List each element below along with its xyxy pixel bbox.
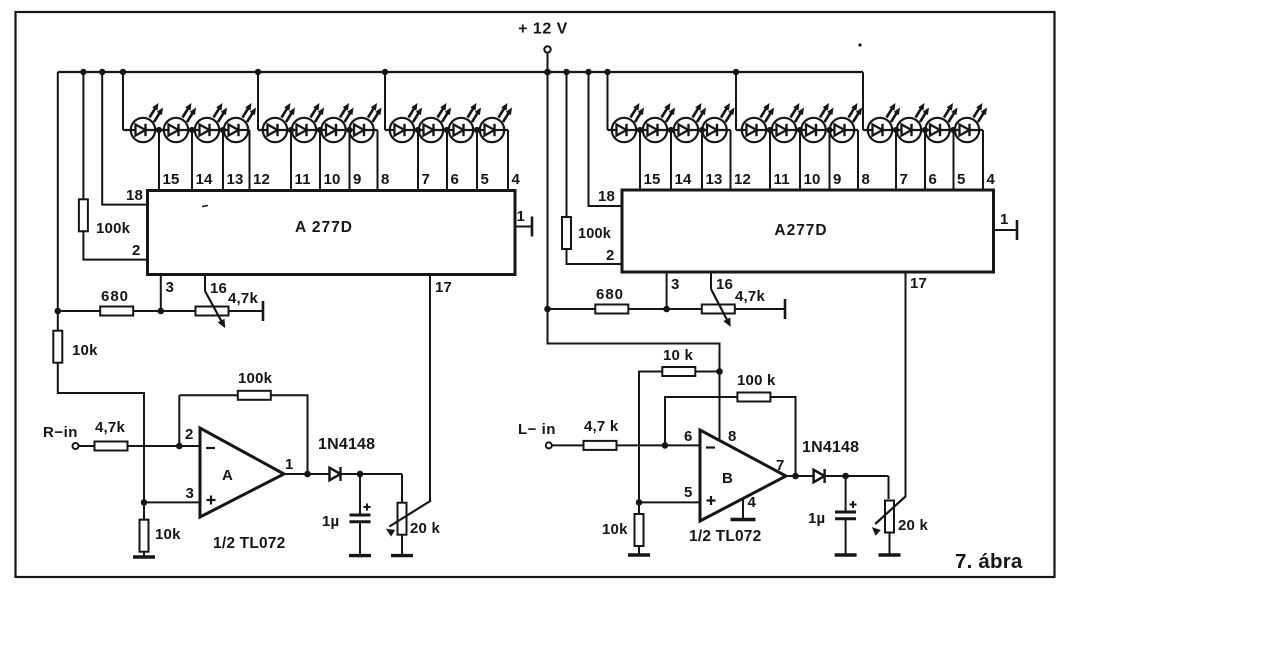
capacitor 1u left — [350, 514, 371, 517]
svg-text:3: 3 — [166, 279, 175, 296]
wire 680 row left — [58, 310, 101, 312]
svg-text:9: 9 — [353, 171, 362, 188]
wire to IC pin 10 — [799, 130, 801, 190]
wire down to cap right — [845, 476, 847, 512]
wire bus to IC pin 18 — [102, 72, 147, 205]
wire feedback top left — [179, 394, 238, 396]
svg-text:1N4148: 1N4148 — [802, 439, 859, 456]
svg-text:4: 4 — [512, 171, 521, 188]
svg-text:16: 16 — [716, 276, 733, 293]
LED (drives pin 8) — [349, 118, 373, 142]
wire to IC pin 4 — [982, 130, 984, 190]
wire LED row — [258, 129, 378, 131]
svg-text:3: 3 — [671, 276, 680, 293]
wire R-in to 4.7k — [79, 445, 96, 447]
pin 1 terminator left — [531, 217, 534, 237]
ground 10k left — [133, 555, 155, 558]
svg-text:10 k: 10 k — [663, 347, 693, 364]
svg-text:15: 15 — [644, 171, 661, 188]
wire diode to cap junction right — [825, 475, 889, 477]
svg-text:A 277D: A 277D — [295, 219, 353, 236]
wire 20k to ground right — [889, 533, 891, 556]
svg-text:18: 18 — [598, 188, 615, 205]
terminator 4.7k row right — [784, 299, 787, 319]
resistor 10k bias right — [635, 514, 644, 546]
wire +12V rail down right — [547, 72, 549, 309]
junction LED cathode pin 7 — [893, 127, 899, 133]
svg-text:A: A — [222, 467, 233, 484]
wire feedback to output right — [770, 397, 796, 476]
junction LED cathode pin 10 — [797, 127, 803, 133]
junction LED cathode pin 5 — [950, 127, 956, 133]
wire to IC pin 15 — [639, 130, 641, 190]
svg-text:4,7k: 4,7k — [95, 419, 125, 436]
svg-text:16: 16 — [210, 280, 227, 297]
LED (drives pin 5) — [449, 118, 473, 142]
LED (drives pin 15) — [131, 118, 155, 142]
svg-text:100 k: 100 k — [737, 372, 776, 389]
svg-text:11: 11 — [774, 171, 790, 188]
terminator 4.7k row left — [262, 301, 265, 321]
LED (drives pin 7) — [390, 118, 414, 142]
svg-text:6: 6 — [451, 171, 460, 188]
resistor 4.7k input left — [95, 442, 128, 451]
wire +12V down to bus — [547, 53, 549, 72]
wire to IC pin 5 — [953, 130, 955, 190]
svg-text:12: 12 — [734, 171, 751, 188]
junction pin 3 right — [663, 306, 670, 313]
wire to IC pin 7 — [895, 130, 897, 190]
svg-text:A277D: A277D — [774, 222, 827, 239]
wire 100k to IC pin 2 right — [567, 249, 623, 264]
wire down to 20k left — [401, 474, 403, 503]
wire bus to LED anode — [122, 72, 124, 130]
diode 1N4148 left — [330, 468, 341, 480]
svg-text:1: 1 — [517, 208, 526, 225]
svg-text:+ 12 V: + 12 V — [518, 21, 568, 38]
LED (drives pin 4) — [480, 118, 504, 142]
wire LED row — [123, 129, 250, 131]
svg-text:13: 13 — [227, 171, 244, 188]
wire op-amp A output — [284, 473, 330, 475]
svg-text:6: 6 — [684, 428, 693, 445]
resistor 10k left rail — [53, 331, 62, 363]
wire cap to ground right — [845, 519, 847, 555]
wire 100k to IC pin 2 — [83, 230, 147, 259]
wire to IC pin 13 — [222, 130, 224, 191]
junction LED cathode pin 10 — [317, 127, 323, 133]
svg-text:6: 6 — [929, 171, 938, 188]
IC A277D left channel — [148, 191, 516, 275]
pin 1 terminator right — [1016, 220, 1019, 240]
LED (drives pin 13) — [195, 118, 219, 142]
wire op-amp B pin 4 ground stub — [742, 499, 744, 520]
junction noninverting left — [141, 499, 148, 506]
wire to IC pin 9 — [829, 130, 831, 190]
wire LED row — [608, 129, 731, 131]
svg-text:1µ: 1µ — [808, 510, 825, 527]
svg-text:10k: 10k — [72, 342, 98, 359]
wire IC pin 16 down — [204, 275, 206, 292]
junction bus right g2 — [733, 69, 739, 75]
wire to IC pin 11 — [290, 130, 292, 191]
LED (drives pin 9) — [801, 118, 825, 142]
svg-text:11: 11 — [295, 171, 311, 188]
wire feedback to output — [270, 395, 308, 474]
svg-text:2: 2 — [606, 247, 615, 264]
wire 680 row right — [548, 308, 596, 310]
svg-text:1N4148: 1N4148 — [318, 436, 375, 453]
op-amp B triangle — [700, 430, 786, 521]
wire LED row — [863, 129, 983, 131]
svg-text:14: 14 — [675, 171, 693, 188]
svg-text:100k: 100k — [578, 226, 612, 242]
LED (drives pin 11) — [742, 118, 766, 142]
junction LED cathode pin 15 — [156, 127, 162, 133]
resistor 10k bias left — [140, 520, 149, 552]
svg-text:680: 680 — [596, 286, 624, 303]
svg-text:5: 5 — [957, 171, 966, 188]
junction diode/cap right — [842, 473, 849, 480]
svg-text:100k: 100k — [238, 370, 273, 387]
svg-text:7: 7 — [776, 457, 785, 474]
wire 4.7k to inverting input right — [616, 444, 700, 446]
wire bus down left rail — [57, 72, 59, 311]
wire pin 17 right — [905, 272, 907, 496]
wire bus to LED anode — [735, 72, 737, 130]
svg-text:R−in: R−in — [43, 424, 78, 441]
svg-text:10k: 10k — [602, 521, 628, 538]
plus sign op-amp B — [707, 499, 716, 501]
wire trimmer to terminator — [229, 310, 264, 312]
svg-text:13: 13 — [706, 171, 723, 188]
junction LED cathode pin 14 — [668, 127, 674, 133]
resistor 100k right channel — [562, 217, 571, 249]
svg-text:4,7k: 4,7k — [735, 288, 765, 305]
LED (drives pin 6) — [419, 118, 443, 142]
svg-text:7: 7 — [422, 171, 431, 188]
LED (drives pin 11) — [263, 118, 287, 142]
wire 10k row left leg — [639, 372, 662, 503]
wire to IC pin 8 — [857, 130, 859, 190]
wire 680 to pin3 junction — [133, 310, 196, 312]
svg-text:1µ: 1µ — [322, 513, 339, 530]
ground 10k bias right — [628, 553, 650, 556]
wire trimmer to terminator right — [735, 308, 785, 310]
diode 1N4148 right — [814, 470, 825, 482]
wire bus down to 100k right — [566, 72, 568, 217]
svg-text:18: 18 — [126, 187, 143, 204]
wire bus to LED anode — [607, 72, 609, 130]
svg-text:10k: 10k — [155, 526, 181, 543]
wire to IC pin 14 — [191, 130, 193, 191]
junction LED cathode pin 5 — [474, 127, 480, 133]
svg-text:17: 17 — [910, 275, 927, 292]
wire feedback 100k left leg right ch — [665, 397, 738, 445]
junction bus to 100k right — [563, 69, 569, 75]
wire bus to IC pin 18 right — [589, 72, 623, 206]
svg-text:7. ábra: 7. ábra — [955, 550, 1023, 573]
minus sign op-amp B — [706, 446, 715, 448]
svg-text:9: 9 — [833, 171, 842, 188]
wire rail to 10k — [57, 311, 59, 331]
wire to IC pin 4 — [507, 130, 509, 191]
svg-text:14: 14 — [196, 171, 214, 188]
junction noninverting right — [636, 499, 643, 506]
capacitor 1u right — [835, 511, 856, 514]
wire 4.7k to inverting input — [127, 445, 200, 447]
junction LED cathode pin 9 — [346, 127, 352, 133]
wire LED row — [736, 129, 858, 131]
svg-text:20 k: 20 k — [898, 517, 928, 534]
wire to IC pin 10 — [319, 130, 321, 191]
junction LED cathode pin 13 — [220, 127, 226, 133]
svg-text:15: 15 — [163, 171, 180, 188]
svg-text:17: 17 — [435, 279, 452, 296]
junction 10k feedback right — [716, 368, 723, 375]
wire 10k to ground — [143, 552, 145, 557]
op-amp A triangle — [200, 428, 284, 517]
input terminal R-in — [73, 443, 79, 449]
junction bus left g1 — [120, 69, 126, 75]
LED (drives pin 14) — [164, 118, 188, 142]
wire to IC pin 6 — [924, 130, 926, 190]
svg-text:680: 680 — [101, 288, 129, 305]
wire junction to 10k bias left — [143, 502, 145, 520]
LED (drives pin 12) — [224, 118, 248, 142]
junction LED cathode pin 13 — [699, 127, 705, 133]
ground 20k left — [391, 554, 413, 557]
svg-text:1/2 TL072: 1/2 TL072 — [689, 528, 761, 545]
svg-text:4: 4 — [748, 494, 757, 511]
wire noninverting input right — [639, 501, 700, 503]
wire IC pin 16 down right — [710, 272, 712, 289]
wire to IC pin 9 — [349, 130, 351, 191]
+12V terminal — [544, 46, 550, 52]
junction bus to 100k left — [80, 69, 86, 75]
wire pin 17 left — [429, 275, 431, 502]
resistor 680 right — [595, 305, 628, 314]
svg-text:L− in: L− in — [518, 421, 556, 438]
wire IC pin 3 down — [160, 275, 162, 312]
svg-text:8: 8 — [862, 171, 871, 188]
junction LED cathode pin 6 — [444, 127, 450, 133]
svg-text:10: 10 — [324, 171, 341, 188]
svg-text:5: 5 — [684, 484, 693, 501]
wire noninverting input left — [144, 501, 200, 503]
junction bus left g2 — [255, 69, 261, 75]
svg-text:12: 12 — [253, 171, 270, 188]
ground 20k right — [879, 553, 901, 556]
wire feedback left vertical — [178, 395, 180, 446]
LED (drives pin 7) — [868, 118, 892, 142]
wire junction to 10k bias right — [638, 502, 640, 514]
junction left rail / 680 row — [55, 308, 62, 315]
junction +12V/bus — [544, 69, 551, 76]
resistor 100k feedback left — [238, 391, 271, 400]
junction right rail / 680 row — [544, 306, 551, 313]
svg-text:1: 1 — [285, 456, 294, 473]
svg-text:2: 2 — [185, 426, 194, 443]
wire 10k row right — [695, 371, 719, 373]
resistor 100k left channel — [79, 199, 88, 231]
wire to IC pin 7 — [417, 130, 419, 191]
wire 10k to noninverting input — [58, 363, 144, 503]
trimmer 4.7k right — [702, 305, 735, 314]
trimmer 20k left — [398, 503, 407, 535]
LED (drives pin 15) — [612, 118, 636, 142]
wire to IC pin 6 — [446, 130, 448, 191]
svg-text:4: 4 — [987, 171, 996, 188]
wire to IC pin 13 — [701, 130, 703, 190]
wire rail to op-amp supply — [548, 309, 720, 444]
svg-text:1: 1 — [1000, 211, 1009, 228]
plus sign op-amp A — [207, 499, 216, 501]
wire LED row — [385, 129, 508, 131]
svg-text:100k: 100k — [96, 220, 131, 237]
junction LED cathode pin 6 — [922, 127, 928, 133]
svg-text:B: B — [722, 470, 733, 487]
print speck inside IC — [202, 206, 208, 207]
junction LED cathode pin 7 — [415, 127, 421, 133]
+12V bus wire — [58, 71, 863, 73]
ground op-amp B — [731, 518, 756, 521]
wire 20k to ground — [401, 535, 403, 556]
LED (drives pin 12) — [702, 118, 726, 142]
junction inverting input right — [662, 442, 669, 449]
wire bus to LED anode — [257, 72, 259, 130]
junction output/feedback right — [792, 473, 799, 480]
LED (drives pin 6) — [897, 118, 921, 142]
junction output/feedback left — [304, 471, 311, 478]
resistor 680 left — [100, 307, 133, 316]
input terminal L-in — [546, 442, 552, 448]
svg-text:4,7 k: 4,7 k — [584, 418, 619, 435]
svg-text:7: 7 — [900, 171, 909, 188]
junction LED cathode pin 11 — [767, 127, 773, 133]
junction LED cathode pin 11 — [288, 127, 294, 133]
trimmer 4.7k left — [196, 307, 229, 316]
junction LED cathode pin 15 — [637, 127, 643, 133]
wire bus to LED anode — [384, 72, 386, 130]
pin 1 wire right IC — [994, 229, 1018, 231]
svg-text:5: 5 — [481, 171, 490, 188]
wire bus to LED anode — [862, 72, 864, 130]
IC A277D right channel — [622, 190, 994, 272]
svg-text:8: 8 — [381, 171, 390, 188]
junction inverting input left — [176, 443, 183, 450]
LED (drives pin 8) — [830, 118, 854, 142]
junction LED cathode pin 14 — [189, 127, 195, 133]
svg-text:20 k: 20 k — [410, 520, 440, 537]
wire to IC pin 11 — [769, 130, 771, 190]
resistor 4.7k input right — [584, 441, 617, 450]
wire op-amp B output — [786, 475, 814, 477]
paper speck — [858, 43, 861, 46]
trimmer 20k right — [885, 501, 894, 533]
wire 680 to pin3 right — [629, 308, 705, 310]
wire to IC pin 15 — [158, 130, 160, 191]
pin 1 wire left IC — [515, 226, 532, 228]
junction pin 3 left — [158, 308, 165, 315]
wire to IC pin 12 — [249, 130, 251, 191]
wire down to cap left — [359, 474, 361, 515]
LED (drives pin 10) — [772, 118, 796, 142]
wire to IC pin 14 — [670, 130, 672, 190]
LED (drives pin 5) — [925, 118, 949, 142]
wire cap to ground — [359, 522, 361, 556]
junction diode/cap left — [357, 471, 364, 478]
resistor 10k feedback right — [662, 367, 695, 376]
junction bus pin18 right — [585, 69, 591, 75]
schematic frame — [16, 12, 1055, 577]
junction bus pin18 left — [99, 69, 105, 75]
junction bus left g3 — [382, 69, 388, 75]
wire 10k bias to ground right — [638, 546, 640, 555]
junction LED cathode pin 9 — [826, 127, 832, 133]
LED (drives pin 13) — [674, 118, 698, 142]
junction bus right g1 — [604, 69, 610, 75]
wire diode to cap junction — [341, 473, 403, 475]
LED (drives pin 4) — [955, 118, 979, 142]
resistor 100k feedback right — [737, 393, 770, 402]
wire IC pin 3 down right — [666, 272, 668, 309]
svg-text:4,7k: 4,7k — [228, 290, 258, 307]
svg-text:10: 10 — [804, 171, 821, 188]
wire bus down to 100k left — [82, 72, 84, 201]
LED (drives pin 14) — [643, 118, 667, 142]
ground cap right — [835, 553, 857, 556]
wire to IC pin 12 — [730, 130, 732, 190]
wire L-in to 4.7k — [552, 444, 584, 446]
minus sign op-amp A — [206, 447, 215, 449]
wire to IC pin 5 — [476, 130, 478, 191]
LED (drives pin 10) — [292, 118, 316, 142]
wire to IC pin 8 — [377, 130, 379, 191]
ground cap left — [349, 554, 371, 557]
LED (drives pin 9) — [321, 118, 345, 142]
svg-text:2: 2 — [132, 242, 141, 259]
svg-text:1/2 TL072: 1/2 TL072 — [213, 535, 285, 552]
wire down to 20k right — [888, 476, 890, 499]
svg-text:8: 8 — [728, 428, 737, 445]
svg-text:3: 3 — [186, 485, 195, 502]
